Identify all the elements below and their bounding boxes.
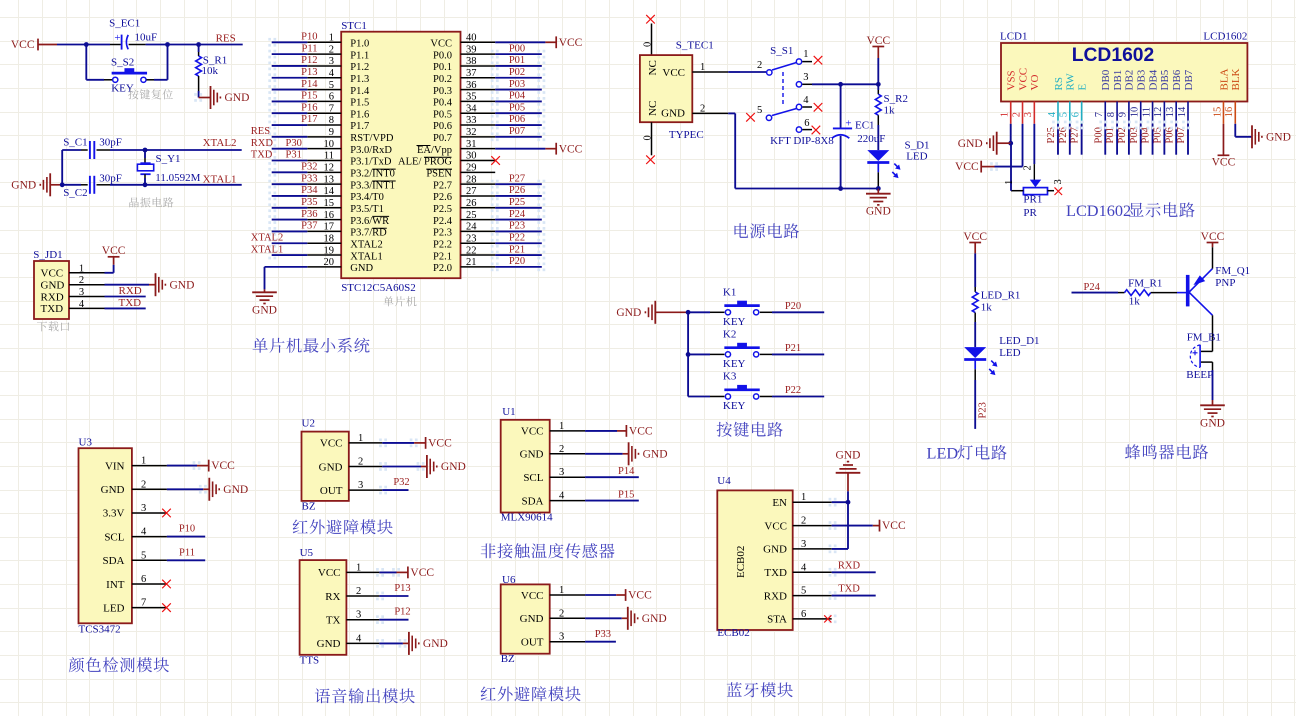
svg-text:5: 5: [329, 80, 334, 91]
svg-text:P2.1: P2.1: [433, 251, 452, 262]
svg-text:1k: 1k: [1129, 296, 1141, 308]
svg-text:11: 11: [1141, 107, 1152, 117]
svg-text:XTAL1: XTAL1: [251, 244, 283, 255]
svg-text:P17: P17: [301, 114, 317, 125]
svg-text:40: 40: [466, 33, 477, 44]
svg-text:VIN: VIN: [105, 460, 125, 472]
svg-text:NC: NC: [647, 60, 659, 75]
svg-text:2: 2: [356, 586, 361, 597]
svg-text:U5: U5: [300, 547, 314, 559]
svg-text:VCC: VCC: [521, 426, 544, 438]
svg-text:P06: P06: [1164, 127, 1175, 143]
svg-text:33: 33: [466, 115, 477, 126]
svg-text:DB7: DB7: [1183, 69, 1195, 90]
svg-text:FM_R1: FM_R1: [1128, 278, 1162, 290]
svg-text:GND: GND: [643, 448, 668, 460]
svg-text:S_TEC1: S_TEC1: [676, 40, 714, 52]
svg-text:9: 9: [1118, 112, 1129, 117]
svg-text:2: 2: [329, 44, 334, 55]
svg-text:4: 4: [1047, 111, 1058, 117]
svg-text:LCD1602: LCD1602: [1072, 45, 1155, 66]
svg-text:GND: GND: [223, 484, 248, 496]
svg-text:12: 12: [324, 163, 335, 174]
svg-text:P13: P13: [394, 583, 410, 594]
svg-text:GND: GND: [958, 138, 983, 150]
svg-text:K2: K2: [723, 328, 736, 340]
svg-text:0: 0: [642, 135, 653, 140]
svg-text:P32: P32: [301, 162, 317, 173]
svg-text:P04: P04: [509, 91, 526, 102]
svg-text:VCC: VCC: [764, 520, 787, 532]
svg-text:RX: RX: [325, 591, 340, 603]
svg-text:P05: P05: [1152, 127, 1163, 143]
svg-text:TXD: TXD: [119, 297, 142, 309]
svg-text:6: 6: [1070, 112, 1081, 117]
svg-text:EN: EN: [772, 497, 787, 509]
svg-text:27: 27: [466, 186, 477, 197]
svg-text:P31: P31: [286, 150, 302, 161]
svg-text:24: 24: [466, 222, 477, 233]
svg-text:P27: P27: [1070, 127, 1081, 143]
svg-text:28: 28: [466, 174, 477, 185]
svg-text:S_Y1: S_Y1: [156, 153, 181, 165]
svg-text:GND: GND: [319, 461, 343, 473]
svg-text:BZ: BZ: [501, 653, 515, 665]
svg-text:220uF: 220uF: [857, 133, 885, 145]
svg-text:VO: VO: [1029, 75, 1041, 91]
svg-text:P0.6: P0.6: [433, 121, 452, 132]
svg-text:P1.2: P1.2: [350, 62, 369, 73]
svg-text:P03: P03: [509, 79, 525, 90]
svg-text:GND: GND: [11, 179, 36, 191]
svg-text:4: 4: [79, 299, 85, 310]
svg-text:VCC: VCC: [866, 35, 890, 47]
svg-text:RXD: RXD: [119, 285, 142, 297]
svg-text:TXD: TXD: [764, 567, 787, 579]
svg-text:GND: GND: [866, 206, 891, 218]
svg-text:2: 2: [141, 479, 146, 490]
svg-text:P14: P14: [301, 79, 318, 90]
svg-text:P05: P05: [509, 102, 525, 113]
svg-text:21: 21: [466, 257, 477, 268]
svg-text:P3.6/WR: P3.6/WR: [350, 216, 389, 227]
svg-text:39: 39: [466, 44, 477, 55]
svg-text:22: 22: [466, 245, 477, 256]
svg-text:6: 6: [801, 609, 806, 620]
svg-text:K3: K3: [723, 371, 737, 383]
svg-text:GND: GND: [423, 638, 448, 650]
svg-text:RXD: RXD: [764, 590, 787, 602]
svg-text:S_EC1: S_EC1: [109, 18, 140, 30]
svg-text:GND: GND: [763, 544, 787, 556]
svg-text:VCC: VCC: [320, 438, 343, 450]
svg-text:P12: P12: [301, 55, 317, 66]
svg-text:3: 3: [801, 539, 806, 550]
svg-text:DB5: DB5: [1159, 69, 1171, 90]
svg-text:BZ: BZ: [302, 501, 316, 513]
svg-text:P02: P02: [1117, 127, 1128, 143]
svg-text:P27: P27: [509, 173, 525, 184]
svg-text:26: 26: [466, 198, 477, 209]
svg-text:VCC: VCC: [521, 590, 544, 602]
svg-text:2: 2: [1011, 112, 1022, 117]
svg-text:10uF: 10uF: [135, 32, 158, 44]
svg-text:6: 6: [141, 574, 146, 585]
svg-text:P2.3: P2.3: [433, 228, 452, 239]
svg-text:1: 1: [803, 49, 808, 60]
svg-text:PSEN: PSEN: [426, 169, 452, 180]
svg-text:+: +: [845, 118, 851, 130]
svg-text:12: 12: [1153, 107, 1164, 118]
svg-text:DB0: DB0: [1100, 69, 1112, 90]
svg-text:P0.0: P0.0: [433, 50, 452, 61]
svg-text:P07: P07: [509, 126, 525, 137]
svg-text:25: 25: [466, 210, 477, 221]
svg-text:BLK: BLK: [1230, 68, 1242, 90]
svg-text:5: 5: [1059, 112, 1070, 117]
svg-text:20: 20: [324, 257, 335, 268]
svg-text:GND: GND: [661, 108, 685, 120]
svg-text:P15: P15: [618, 490, 634, 501]
svg-text:P1.0: P1.0: [350, 39, 369, 50]
svg-text:U3: U3: [79, 437, 93, 449]
svg-text:4: 4: [329, 68, 335, 79]
svg-text:PR1: PR1: [1023, 193, 1042, 205]
svg-text:TTS: TTS: [300, 655, 320, 667]
svg-text:P30: P30: [286, 138, 302, 149]
svg-text:P1.6: P1.6: [350, 109, 369, 120]
svg-text:VCC: VCC: [11, 39, 35, 51]
svg-text:FM_B1: FM_B1: [1187, 332, 1221, 344]
svg-text:VCC: VCC: [428, 438, 452, 450]
svg-text:GND: GND: [520, 613, 544, 625]
svg-text:SCL: SCL: [523, 472, 543, 484]
svg-text:10: 10: [324, 139, 335, 150]
svg-text:P3.5/T1: P3.5/T1: [350, 204, 384, 215]
svg-text:32: 32: [466, 127, 477, 138]
svg-text:0: 0: [642, 42, 653, 47]
svg-text:PR: PR: [1023, 207, 1037, 219]
svg-text:8: 8: [329, 115, 334, 126]
svg-text:RST/VPD: RST/VPD: [350, 133, 394, 144]
svg-text:STA: STA: [767, 614, 787, 626]
svg-text:VCC: VCC: [559, 37, 583, 49]
svg-text:4: 4: [801, 562, 807, 573]
svg-text:P07: P07: [1176, 127, 1187, 143]
svg-text:RS: RS: [1053, 77, 1065, 90]
svg-text:VCC: VCC: [410, 567, 434, 579]
svg-text:LED: LED: [999, 347, 1020, 359]
svg-text:XTAL2: XTAL2: [350, 239, 382, 250]
svg-text:1: 1: [356, 562, 361, 573]
svg-text:14: 14: [324, 186, 335, 197]
svg-text:4: 4: [803, 95, 809, 106]
svg-text:P3.2/INT0: P3.2/INT0: [350, 169, 395, 180]
svg-text:P35: P35: [301, 197, 317, 208]
svg-text:P02: P02: [509, 67, 525, 78]
svg-text:P0.5: P0.5: [433, 109, 452, 120]
svg-text:P22: P22: [785, 385, 801, 396]
svg-text:BEEP: BEEP: [1186, 369, 1213, 381]
svg-text:2: 2: [801, 516, 806, 527]
svg-text:P0.2: P0.2: [433, 74, 452, 85]
svg-text:DB2: DB2: [1124, 70, 1136, 91]
svg-text:GND: GND: [1200, 417, 1225, 429]
svg-text:3: 3: [1053, 179, 1064, 184]
svg-text:DB4: DB4: [1147, 69, 1159, 90]
svg-text:LED: LED: [927, 444, 959, 463]
svg-text:DB1: DB1: [1112, 70, 1124, 91]
svg-text:KEY: KEY: [723, 400, 746, 412]
svg-text:GND: GND: [350, 263, 373, 274]
svg-text:VCC: VCC: [963, 231, 987, 243]
svg-text:3: 3: [358, 480, 363, 491]
svg-text:E: E: [1076, 84, 1088, 91]
svg-text:FM_Q1: FM_Q1: [1215, 265, 1250, 277]
svg-text:SCL: SCL: [104, 531, 124, 543]
svg-text:LCD1602: LCD1602: [1203, 31, 1247, 43]
svg-text:TYPEC: TYPEC: [669, 129, 704, 141]
svg-text:1: 1: [1004, 180, 1015, 185]
svg-text:GND: GND: [642, 613, 667, 625]
svg-text:RXD: RXD: [251, 138, 274, 149]
svg-text:ALE/ PROG: ALE/ PROG: [398, 157, 452, 168]
svg-text:GND: GND: [170, 279, 195, 291]
svg-text:P26: P26: [1058, 127, 1069, 143]
svg-text:15: 15: [1212, 107, 1223, 118]
svg-text:3: 3: [329, 56, 334, 67]
svg-text:34: 34: [466, 103, 477, 114]
svg-text:13: 13: [1165, 107, 1176, 118]
svg-text:VCC: VCC: [629, 426, 653, 438]
svg-text:36: 36: [466, 80, 477, 91]
svg-text:P22: P22: [509, 232, 525, 243]
svg-text:3: 3: [79, 287, 84, 298]
svg-text:2: 2: [700, 103, 705, 114]
svg-text:LED: LED: [906, 151, 927, 163]
svg-text:XTAL1: XTAL1: [350, 251, 382, 262]
svg-text:11.0592M: 11.0592M: [155, 172, 200, 184]
svg-text:P0.4: P0.4: [433, 98, 453, 109]
svg-text:1k: 1k: [981, 302, 993, 314]
svg-text:VCC: VCC: [662, 67, 685, 79]
svg-text:P26: P26: [509, 185, 525, 196]
svg-text:1: 1: [559, 585, 564, 596]
svg-text:DB3: DB3: [1136, 69, 1148, 90]
svg-text:30pF: 30pF: [99, 137, 122, 149]
svg-text:3: 3: [356, 610, 361, 621]
svg-text:7: 7: [1094, 112, 1105, 117]
svg-text:6: 6: [329, 92, 334, 103]
svg-text:LED: LED: [103, 602, 124, 614]
svg-text:P3.3/INT1: P3.3/INT1: [350, 180, 395, 191]
svg-text:1: 1: [79, 263, 84, 274]
svg-text:8: 8: [1106, 112, 1117, 117]
svg-text:VCC: VCC: [1017, 68, 1029, 91]
svg-text:P10: P10: [301, 32, 317, 43]
svg-text:P34: P34: [301, 185, 318, 196]
svg-text:3: 3: [803, 72, 808, 83]
svg-text:OUT: OUT: [521, 637, 544, 649]
svg-text:7: 7: [329, 103, 334, 114]
svg-text:P0.1: P0.1: [433, 62, 452, 73]
svg-text:ECB02: ECB02: [717, 627, 749, 639]
svg-text:2: 2: [757, 60, 762, 71]
svg-text:3: 3: [559, 632, 564, 643]
svg-text:XTAL1: XTAL1: [203, 174, 237, 186]
svg-text:S_JD1: S_JD1: [33, 249, 62, 261]
svg-text:SDA: SDA: [102, 555, 124, 567]
svg-text:4: 4: [141, 527, 147, 538]
svg-text:DB6: DB6: [1171, 69, 1183, 90]
svg-text:U2: U2: [302, 418, 315, 430]
svg-text:VCC: VCC: [628, 590, 652, 602]
svg-text:1: 1: [801, 492, 806, 503]
svg-text:GND: GND: [225, 92, 250, 104]
svg-text:LED_D1: LED_D1: [999, 335, 1039, 347]
svg-text:XTAL2: XTAL2: [251, 232, 283, 243]
svg-text:P00: P00: [509, 43, 525, 54]
svg-text:GND: GND: [520, 449, 544, 461]
svg-text:30: 30: [466, 151, 477, 162]
svg-text:P25: P25: [1046, 127, 1057, 143]
svg-text:P11: P11: [179, 547, 195, 558]
svg-text:P03: P03: [1129, 127, 1140, 143]
svg-text:P12: P12: [394, 607, 410, 618]
svg-text:17: 17: [324, 222, 335, 233]
svg-text:PNP: PNP: [1215, 277, 1235, 289]
svg-text:P23: P23: [509, 221, 525, 232]
svg-text:TXD: TXD: [838, 584, 860, 595]
svg-text:2: 2: [358, 457, 363, 468]
svg-text:RES: RES: [251, 126, 270, 137]
svg-text:23: 23: [466, 233, 477, 244]
svg-text:VCC: VCC: [559, 143, 583, 155]
svg-text:P20: P20: [509, 256, 525, 267]
svg-text:RES: RES: [216, 33, 236, 45]
svg-text:P11: P11: [302, 43, 318, 54]
svg-text:VCC: VCC: [955, 161, 979, 173]
svg-text:3: 3: [559, 467, 564, 478]
svg-text:MLX90614: MLX90614: [501, 512, 553, 524]
svg-text:P33: P33: [301, 173, 317, 184]
svg-text:P1.7: P1.7: [350, 121, 369, 132]
svg-text:GND: GND: [836, 449, 861, 461]
svg-text:P16: P16: [301, 102, 317, 113]
svg-text:P36: P36: [301, 209, 317, 220]
svg-text:5: 5: [801, 586, 806, 597]
svg-text:29: 29: [466, 163, 477, 174]
svg-text:STC1: STC1: [341, 20, 367, 32]
svg-text:P37: P37: [301, 221, 317, 232]
svg-text:P25: P25: [509, 197, 525, 208]
svg-text:GND: GND: [317, 638, 341, 650]
svg-text:16: 16: [324, 210, 335, 221]
svg-text:KEY: KEY: [723, 316, 746, 328]
svg-text:1k: 1k: [884, 105, 896, 117]
svg-text:VSS: VSS: [1006, 70, 1018, 90]
svg-text:2: 2: [559, 608, 564, 619]
svg-text:5: 5: [757, 105, 762, 116]
svg-text:38: 38: [466, 56, 477, 67]
svg-text:10k: 10k: [202, 65, 219, 77]
svg-text:VCC: VCC: [41, 268, 64, 280]
svg-text:LED_R1: LED_R1: [981, 290, 1021, 302]
svg-text:+: +: [114, 32, 120, 44]
svg-text:P01: P01: [509, 55, 525, 66]
svg-text:P13: P13: [301, 67, 317, 78]
svg-text:P23: P23: [977, 402, 988, 418]
svg-text:P3.1/TxD: P3.1/TxD: [350, 157, 392, 168]
svg-text:OUT: OUT: [320, 485, 343, 497]
svg-text:XTAL2: XTAL2: [203, 137, 237, 149]
svg-text:11: 11: [324, 151, 334, 162]
svg-text:2: 2: [79, 275, 84, 286]
svg-text:P3.0/RxD: P3.0/RxD: [350, 145, 392, 156]
svg-text:10: 10: [1130, 107, 1141, 118]
svg-text:P06: P06: [509, 114, 525, 125]
svg-text:1: 1: [358, 433, 363, 444]
svg-text:3.3V: 3.3V: [103, 508, 125, 520]
svg-text:P21: P21: [509, 244, 525, 255]
svg-text:S_S1: S_S1: [770, 45, 793, 57]
svg-text:TCS3472: TCS3472: [79, 624, 121, 636]
svg-text:P01: P01: [1105, 127, 1116, 143]
svg-text:P2.4: P2.4: [433, 216, 453, 227]
svg-text:4: 4: [356, 633, 362, 644]
svg-text:VCC: VCC: [430, 39, 452, 50]
svg-text:TXD: TXD: [41, 303, 64, 315]
svg-text:P1.4: P1.4: [350, 86, 370, 97]
svg-text:2: 2: [559, 444, 564, 455]
svg-text:6: 6: [804, 118, 809, 129]
svg-text:P10: P10: [179, 524, 195, 535]
svg-text:P2.2: P2.2: [433, 239, 452, 250]
svg-text:LCD1602: LCD1602: [1066, 201, 1131, 220]
svg-text:P21: P21: [785, 343, 801, 354]
svg-text:GND: GND: [252, 304, 277, 316]
svg-text:SDA: SDA: [521, 495, 543, 507]
svg-text:P15: P15: [301, 91, 317, 102]
svg-text:VCC: VCC: [318, 567, 341, 579]
svg-text:EA/Vpp: EA/Vpp: [417, 145, 452, 156]
svg-text:P3.7/RD: P3.7/RD: [350, 228, 387, 239]
svg-text:TX: TX: [326, 615, 341, 627]
svg-text:3: 3: [141, 503, 146, 514]
svg-text:P2.0: P2.0: [433, 263, 452, 274]
svg-text:1: 1: [700, 62, 705, 73]
svg-text:2: 2: [1022, 165, 1033, 170]
svg-text:5: 5: [141, 550, 146, 561]
svg-text:K1: K1: [723, 286, 736, 298]
svg-text:14: 14: [1177, 106, 1188, 117]
svg-text:1: 1: [329, 33, 334, 44]
svg-text:S_R2: S_R2: [884, 93, 908, 105]
svg-text:P14: P14: [618, 466, 635, 477]
svg-text:INT: INT: [106, 579, 125, 591]
svg-text:VCC: VCC: [1201, 231, 1225, 243]
svg-text:GND: GND: [1266, 131, 1291, 143]
svg-text:30pF: 30pF: [99, 173, 122, 185]
svg-text:1: 1: [559, 421, 564, 432]
svg-text:S_C1: S_C1: [63, 137, 87, 149]
svg-text:1: 1: [1000, 112, 1011, 117]
svg-text:31: 31: [466, 139, 477, 150]
svg-text:7: 7: [141, 598, 146, 609]
svg-text:1: 1: [141, 456, 146, 467]
svg-text:GND: GND: [441, 461, 466, 473]
svg-text:19: 19: [324, 245, 335, 256]
